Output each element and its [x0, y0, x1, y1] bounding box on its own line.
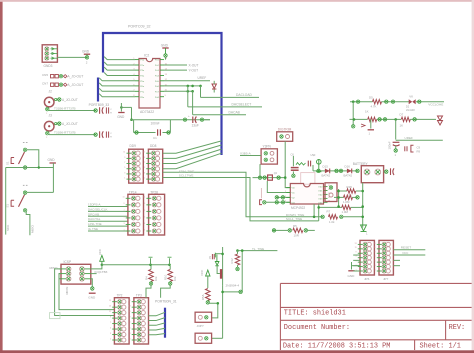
- svg-text:100nF: 100nF: [388, 141, 392, 149]
- svg-text:11: 11: [123, 152, 125, 154]
- net X3B5-A: [240, 151, 261, 155]
- svg-text:GND: GND: [48, 158, 56, 162]
- capacitor at DAC pin4: [260, 188, 291, 205]
- ground GND right of SV1: [82, 50, 90, 65]
- wire crystal to DAC pin2: [267, 181, 290, 193]
- header JP7: [373, 240, 393, 281]
- connector row CN7: [42, 81, 83, 87]
- svg-text:Date: 11/7/2008 3:51:13 PM: Date: 11/7/2008 3:51:13 PM: [283, 343, 391, 351]
- svg-text:UREF: UREF: [405, 136, 414, 140]
- svg-text:11: 11: [355, 247, 357, 249]
- label SCK vertical: [6, 224, 10, 231]
- svg-text:T31B6-RTT37B: T31B6-RTT37B: [54, 107, 76, 111]
- svg-text:MOSI: MOSI: [65, 286, 69, 294]
- capacitor C2 13uF: [183, 114, 210, 128]
- label MOSI vertical2: [65, 286, 69, 294]
- op-amp codec IC2 body: [139, 59, 160, 109]
- svg-text:SCK: SCK: [6, 224, 10, 231]
- wire SV1 to GND: [57, 56, 87, 58]
- svg-text:R5A: R5A: [201, 294, 205, 300]
- wire S1b bottom net MISO: [26, 212, 30, 235]
- svg-text:VCCLOHE: VCCLOHE: [428, 103, 443, 107]
- svg-text:D5: D5: [369, 95, 373, 99]
- svg-text:IC2: IC2: [144, 54, 149, 58]
- battery holder: [353, 162, 394, 183]
- trimmer DIGTRIM: [277, 127, 293, 141]
- svg-text:1K: 1K: [400, 124, 404, 128]
- svg-text:5: 5: [110, 327, 111, 329]
- wire UCC rail above TP: [102, 257, 172, 266]
- LED D2: [438, 116, 443, 125]
- title text: [284, 310, 346, 318]
- svg-text:JP7: JP7: [383, 277, 389, 281]
- schematic frame bottom bar: [0, 350, 474, 353]
- svg-text:VK: VK: [409, 94, 413, 98]
- resistor R7 with DAC bottom verticals: [313, 204, 363, 224]
- svg-text:DD9: DD9: [130, 144, 137, 148]
- svg-text:BAT42: BAT42: [344, 174, 353, 178]
- svg-text:9: 9: [144, 203, 145, 205]
- svg-text:13uF: 13uF: [192, 123, 199, 127]
- svg-text:3: 3: [375, 265, 376, 267]
- svg-text:R15: R15: [347, 185, 353, 189]
- wire IC2 ground rail: [121, 107, 210, 121]
- svg-text:GND: GND: [82, 50, 90, 54]
- connector Y3PN: [261, 145, 277, 165]
- svg-text:UCC: UCC: [98, 249, 102, 255]
- svg-text:Y3PN: Y3PN: [263, 145, 272, 149]
- svg-text:A_JO-OUT: A_JO-OUT: [68, 75, 84, 79]
- svg-text:MCP4922: MCP4922: [291, 206, 305, 210]
- svg-text:TP14: TP14: [129, 190, 137, 194]
- svg-text:R5: R5: [293, 224, 297, 228]
- transistor Q1 2N3904: [212, 247, 243, 338]
- resistor R15 10k: [337, 185, 363, 198]
- svg-text:13: 13: [128, 306, 130, 308]
- wire net SCK: [5, 168, 7, 235]
- svg-text:3: 3: [144, 223, 145, 225]
- svg-text:10R: 10R: [294, 234, 299, 238]
- capacitor next to UREF: [405, 145, 421, 153]
- document number text: [284, 324, 350, 332]
- date text: [283, 343, 391, 351]
- resistor R12: [230, 251, 240, 271]
- svg-text:C6: C6: [291, 153, 295, 157]
- svg-text:11: 11: [143, 197, 145, 199]
- svg-text:R9: R9: [417, 149, 421, 153]
- svg-text:R7: R7: [327, 210, 331, 214]
- bus PORTB09_33 label: [89, 103, 110, 107]
- ground GND below IC2: [117, 103, 125, 119]
- svg-text:11: 11: [109, 311, 111, 313]
- MCP4922 label: [291, 206, 305, 210]
- svg-text:7: 7: [375, 256, 376, 258]
- capacitor C5 near Q1: [209, 254, 214, 259]
- bus PORTB0N_31: [164, 308, 166, 338]
- wires JP7 right: [393, 246, 425, 266]
- wire S1b pole: [27, 191, 54, 193]
- svg-text:Y-OUT: Y-OUT: [189, 69, 199, 73]
- svg-text:A_JO-OUT: A_JO-OUT: [62, 122, 78, 126]
- bus PORTB0N_31 label: [155, 300, 177, 304]
- wire DAC pin3: [275, 196, 290, 200]
- header JP6: [354, 240, 374, 281]
- svg-text:1K: 1K: [365, 109, 369, 113]
- svg-text:D15: D15: [323, 165, 329, 169]
- svg-text:9: 9: [375, 252, 376, 254]
- svg-text:DPC/AB: DPC/AB: [88, 212, 99, 216]
- svg-text:UREF: UREF: [198, 76, 207, 80]
- svg-text:DACAB: DACAB: [229, 111, 241, 115]
- svg-text:2N3904-4: 2N3904-4: [226, 283, 240, 287]
- svg-text:1.0M: 1.0M: [342, 210, 349, 214]
- net DACLOAD: [201, 93, 260, 97]
- svg-text:13DPS-A: 13DPS-A: [88, 203, 101, 207]
- svg-text:RESET: RESET: [401, 246, 411, 250]
- svg-text:1: 1: [124, 178, 125, 180]
- svg-text:TP3: TP3: [136, 294, 142, 298]
- junction column right of DAC: [337, 189, 340, 208]
- DAC IC MCP4922 body: [290, 184, 323, 205]
- svg-text:13: 13: [109, 306, 111, 308]
- ground below 1K resistor: [361, 119, 374, 135]
- label MISO vertical: [31, 224, 35, 233]
- svg-text:S1: S1: [6, 161, 10, 165]
- svg-text:T31B6-RTT37B: T31B6-RTT37B: [54, 131, 76, 135]
- svg-text:7: 7: [356, 256, 357, 258]
- svg-text:11: 11: [129, 311, 131, 313]
- electrolytic cap after J3: [46, 131, 113, 140]
- header TP2: [109, 294, 129, 344]
- svg-text:R4: R4: [144, 276, 148, 280]
- svg-text:BAT42: BAT42: [322, 174, 331, 178]
- schematic frame left bar: [0, 0, 3, 353]
- wire battery rail: [361, 183, 364, 228]
- wire UREF row: [164, 80, 210, 82]
- svg-text:3: 3: [124, 172, 125, 174]
- header TP14: [123, 190, 144, 235]
- svg-text:J2: J2: [49, 90, 53, 94]
- header DD8: [143, 144, 163, 183]
- net SDM_TWE: [163, 169, 322, 217]
- svg-text:5: 5: [375, 261, 376, 263]
- svg-text:J3PY: J3PY: [197, 324, 204, 328]
- ground GND between switches: [48, 158, 56, 192]
- connector ICSP: [50, 260, 108, 284]
- diodes BAT42 row: [313, 165, 359, 178]
- svg-text:DAC/SEL/CLK: DAC/SEL/CLK: [88, 207, 108, 211]
- label UREF net: [198, 76, 207, 80]
- svg-text:5: 5: [123, 216, 124, 218]
- svg-text:10k: 10k: [154, 276, 158, 281]
- audio jack J3: [44, 114, 77, 131]
- svg-text:1: 1: [123, 229, 124, 231]
- svg-text:DACLOAD: DACLOAD: [236, 93, 253, 97]
- svg-text:DAC/TAL: DAC/TAL: [88, 217, 101, 221]
- net DACSELECT: [188, 103, 262, 107]
- svg-text:SCL1_TWE: SCL1_TWE: [286, 217, 302, 221]
- wires bus to IC2 left pins: [99, 57, 135, 97]
- svg-text:CN7: CN7: [42, 81, 48, 85]
- diode at battery rail bottom: [361, 225, 369, 236]
- capacitor UREF 100nF: [388, 119, 443, 157]
- svg-text:U$3: U$3: [311, 153, 316, 157]
- junction grid right of IC2: [164, 85, 202, 115]
- svg-text:TP28: TP28: [150, 190, 158, 194]
- svg-text:7: 7: [124, 162, 125, 164]
- svg-text:J3: J3: [49, 114, 53, 118]
- svg-text:S1: S1: [6, 204, 10, 208]
- wire S1a pole: [27, 150, 39, 169]
- svg-text:9: 9: [123, 203, 124, 205]
- svg-text:DD8: DD8: [150, 144, 157, 148]
- net label list left of TP headers: [88, 203, 128, 232]
- wires DD8 to bus: [163, 141, 222, 169]
- wire ICSP to TP2 b: [59, 274, 114, 310]
- svg-text:GND: GND: [117, 115, 125, 119]
- svg-text:13: 13: [354, 243, 356, 245]
- svg-text:TL_TWE: TL_TWE: [252, 247, 264, 251]
- resistor diode row VCCLOHE: [350, 94, 444, 112]
- VCC at ICSP: [91, 249, 104, 269]
- svg-text:D7: D7: [400, 112, 404, 116]
- IC2 pin name labels: [133, 58, 167, 99]
- svg-text:9: 9: [124, 157, 125, 159]
- header TP28: [143, 190, 164, 235]
- resistor R5A with VCC: [200, 269, 219, 318]
- svg-text:7: 7: [144, 162, 145, 164]
- audio jack J2: [44, 90, 77, 107]
- sheet text: [420, 343, 461, 351]
- svg-text:15: 15: [109, 300, 111, 302]
- svg-text:1: 1: [110, 338, 111, 340]
- svg-text:3: 3: [110, 333, 111, 335]
- svg-text:9: 9: [356, 252, 357, 254]
- svg-text:7: 7: [129, 322, 130, 324]
- svg-text:11: 11: [143, 152, 145, 154]
- svg-text:GND: GND: [88, 295, 96, 299]
- svg-text:GND: GND: [161, 43, 169, 47]
- svg-text:5: 5: [144, 216, 145, 218]
- net SCL1_TWE: [163, 173, 319, 221]
- svg-text:MISO: MISO: [31, 224, 35, 233]
- connector J3PY: [195, 312, 212, 328]
- svg-text:9: 9: [110, 317, 111, 319]
- svg-text:3L TNE: 3L TNE: [88, 227, 98, 231]
- svg-text:REV:: REV:: [449, 324, 466, 332]
- svg-text:7: 7: [123, 210, 124, 212]
- svg-text:13: 13: [373, 243, 375, 245]
- svg-text:11: 11: [374, 247, 376, 249]
- svg-text:15: 15: [128, 300, 130, 302]
- svg-text:1.0k: 1.0k: [329, 220, 335, 224]
- svg-text:DACSELECT: DACSELECT: [232, 103, 252, 107]
- svg-text:PORTB0N_31: PORTB0N_31: [155, 300, 177, 304]
- header TP3: [128, 294, 148, 344]
- svg-text:ICSP: ICSP: [64, 260, 72, 264]
- svg-text:7: 7: [144, 210, 145, 212]
- svg-text:100nF: 100nF: [151, 121, 160, 125]
- svg-text:A_JO-OUT: A_JO-OUT: [68, 83, 84, 87]
- svg-text:PORTC09_32: PORTC09_32: [128, 25, 151, 29]
- wire vertical x353: [351, 102, 355, 128]
- header DD9: [123, 144, 143, 183]
- svg-text:TP2: TP2: [117, 294, 123, 298]
- IC2 name label: [144, 54, 149, 58]
- svg-text:11: 11: [123, 197, 125, 199]
- wire DIGTRIM to DAC: [285, 141, 290, 187]
- svg-text:1.0M: 1.0M: [343, 200, 350, 204]
- wire IC2 X-OUT: [164, 64, 198, 68]
- electrolytic cap after J2: [46, 107, 113, 116]
- svg-text:5: 5: [144, 167, 145, 169]
- schematic frame top bar: [0, 0, 474, 2]
- wire ICSP to TP2 a: [55, 269, 115, 316]
- svg-text:PORTB09_33: PORTB09_33: [89, 103, 110, 107]
- svg-text:TITLE: shield31: TITLE: shield31: [284, 310, 346, 318]
- ground GND above IC2: [161, 43, 169, 59]
- net TL_TWE: [236, 247, 277, 292]
- resistor R5 10R: [272, 224, 315, 238]
- svg-text:1: 1: [375, 269, 376, 271]
- connector row CN5: [42, 73, 83, 79]
- resistor R16 1.0M: [319, 205, 363, 214]
- resistor R23 1.0M: [334, 195, 359, 204]
- svg-text:LP2L TNE: LP2L TNE: [88, 222, 102, 226]
- connector right of DAC: [325, 183, 337, 202]
- bus PORTC09_32 label: [128, 25, 151, 29]
- svg-text:\/CC: \/CC: [402, 251, 409, 255]
- svg-text:GND: GND: [348, 274, 356, 278]
- diode D4 at UREF: [212, 81, 216, 93]
- svg-text:D16: D16: [345, 165, 351, 169]
- svg-text:LN4148: LN4148: [406, 109, 415, 112]
- ground GND below JP6: [348, 255, 361, 278]
- wire S1a throw to GND: [6, 166, 54, 168]
- svg-text:1: 1: [144, 229, 145, 231]
- svg-text:5: 5: [129, 327, 130, 329]
- diode D near Q1: [215, 253, 222, 274]
- svg-text:VCC: VCC: [200, 269, 204, 276]
- MCP4922 pin name labels: [285, 185, 331, 204]
- svg-text:3: 3: [123, 223, 124, 225]
- pale green box near TP2: [50, 313, 61, 319]
- resistor row 1K 1K: [350, 109, 437, 127]
- svg-text:C1: C1: [153, 136, 157, 140]
- switch S1 section B: [6, 185, 28, 212]
- svg-text:R12: R12: [230, 258, 234, 264]
- svg-text:9: 9: [144, 157, 145, 159]
- svg-text:Sheet: 1/1: Sheet: 1/1: [420, 343, 461, 351]
- IC2 pin stubs: [135, 60, 164, 97]
- svg-text:9: 9: [129, 317, 130, 319]
- net DACAB: [193, 111, 246, 115]
- svg-text:SCL1TWE: SCL1TWE: [179, 173, 194, 177]
- capacitors and VCC above DAC: [291, 153, 322, 185]
- crystal Q2 row: [253, 164, 287, 180]
- ground GND below ICSP: [88, 279, 96, 300]
- rev text: [449, 324, 466, 332]
- svg-text:AD73422: AD73422: [140, 110, 154, 114]
- bus PORTB09_33: [97, 78, 99, 102]
- svg-text:+: +: [188, 114, 190, 118]
- svg-text:JP6: JP6: [364, 277, 370, 281]
- wire IC2 Y-OUT: [164, 69, 198, 73]
- IC2 value label AD73422: [140, 110, 154, 114]
- svg-text:DIGTRIM: DIGTRIM: [278, 127, 292, 131]
- svg-text:3: 3: [129, 333, 130, 335]
- svg-text:4.7K: 4.7K: [371, 105, 377, 109]
- svg-text:MISO: MISO: [50, 266, 59, 270]
- svg-text:10k: 10k: [173, 276, 177, 281]
- connector SV1 top-left: [42, 45, 57, 68]
- svg-text:3: 3: [144, 172, 145, 174]
- svg-text:1: 1: [144, 178, 145, 180]
- wires TP3 to bus: [149, 312, 166, 335]
- bus PORTC09_32: [103, 33, 222, 155]
- switch S1 section A: [6, 143, 28, 170]
- svg-text:A_JO-OUT: A_JO-OUT: [62, 98, 78, 102]
- schematic frame right bar: [472, 0, 474, 353]
- svg-text:5: 5: [124, 167, 125, 169]
- svg-text:CN5: CN5: [42, 73, 48, 77]
- svg-text:X-OUT: X-OUT: [189, 64, 199, 68]
- svg-text:X3B5-A: X3B5-A: [240, 151, 252, 155]
- svg-text:R10: R10: [164, 274, 168, 280]
- svg-text:GND3: GND3: [44, 64, 53, 68]
- resistor R4 10k: [144, 266, 158, 298]
- capacitor C1 100nF: [134, 120, 171, 140]
- connector J3PY2: [195, 333, 212, 343]
- svg-text:1: 1: [129, 338, 130, 340]
- resistor R10 10k: [161, 266, 177, 298]
- svg-text:Document Number:: Document Number:: [284, 324, 350, 332]
- title block frame lines: [280, 283, 471, 350]
- MCP4922 pin stubs: [286, 187, 327, 203]
- svg-text:7: 7: [110, 322, 111, 324]
